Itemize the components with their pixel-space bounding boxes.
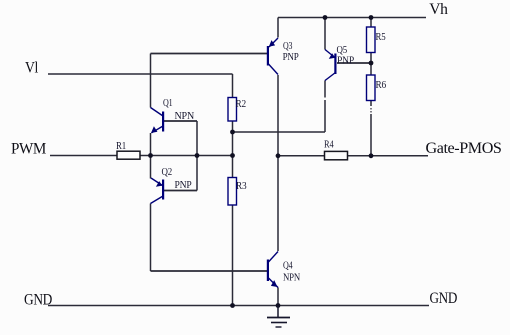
svg-text:Gate-PMOS: Gate-PMOS	[426, 140, 502, 157]
svg-text:Vh: Vh	[429, 1, 448, 18]
svg-text:NPN: NPN	[283, 272, 300, 283]
svg-text:R4: R4	[324, 139, 334, 150]
svg-text:PWM: PWM	[11, 141, 47, 158]
svg-text:GND: GND	[24, 292, 52, 309]
svg-text:PNP: PNP	[283, 52, 300, 63]
svg-text:Q4: Q4	[283, 261, 293, 272]
svg-text:GND: GND	[430, 290, 458, 307]
svg-text:R3: R3	[236, 181, 247, 192]
svg-text:R6: R6	[376, 80, 387, 91]
svg-text:Q1: Q1	[163, 98, 173, 109]
svg-text:NPN: NPN	[175, 111, 195, 122]
svg-text:Vl: Vl	[25, 59, 38, 76]
svg-text:R1: R1	[116, 141, 126, 152]
svg-text:Q3: Q3	[283, 41, 292, 52]
svg-text:R2: R2	[236, 99, 247, 110]
svg-text:PNP: PNP	[337, 56, 355, 67]
svg-text:Q2: Q2	[162, 167, 173, 178]
svg-text:PNP: PNP	[175, 180, 193, 191]
svg-text:R5: R5	[376, 32, 386, 43]
svg-text:Q5: Q5	[337, 45, 348, 56]
